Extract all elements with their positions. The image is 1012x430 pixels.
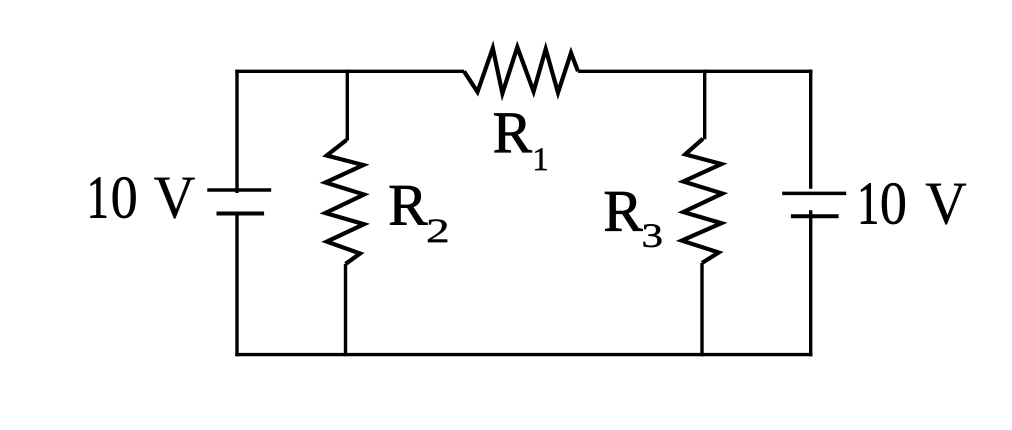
wire R3 to bottom <box>700 263 703 356</box>
resistor R3 zigzag <box>682 139 723 263</box>
wire R2 to bottom <box>344 264 347 356</box>
battery V2 short plate <box>791 214 839 218</box>
wire right lower <box>809 210 812 356</box>
wire right upper <box>809 70 812 189</box>
node A junction wire to R2 <box>346 70 349 141</box>
wire bottom horizontal <box>235 353 812 356</box>
label R3 subscript 3 <box>643 224 661 247</box>
wire top horizontal right of R1 <box>578 70 812 73</box>
label R1 <box>494 114 532 153</box>
label R3 <box>605 192 643 231</box>
label 10 V left <box>91 177 106 217</box>
label R2 <box>390 186 428 225</box>
wire left upper <box>235 70 238 193</box>
battery V1 long plate <box>207 188 271 192</box>
label R2 subscript 2 <box>428 219 447 242</box>
battery V2 long plate <box>782 192 846 196</box>
resistor R1 zigzag <box>464 47 578 93</box>
node B junction wire to R3 <box>703 70 706 140</box>
wire left lower <box>235 214 238 356</box>
resistor R2 zigzag <box>325 140 364 264</box>
label R1 subscript 1 <box>535 148 547 170</box>
wire top horizontal left of R1 <box>235 70 464 73</box>
battery V1 short plate <box>217 212 265 216</box>
label 10 V right <box>861 183 876 223</box>
